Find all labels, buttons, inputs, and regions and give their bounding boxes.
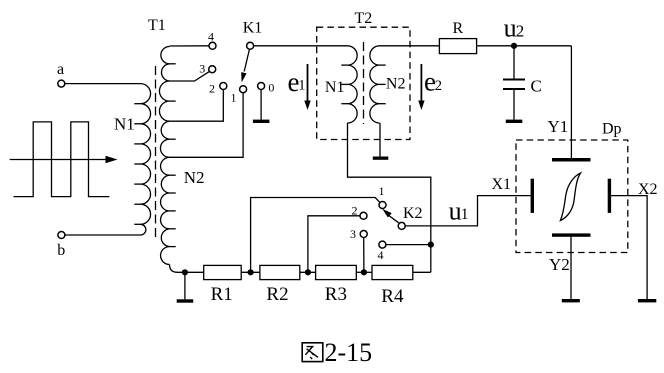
svg-text:1: 1 <box>379 184 385 198</box>
svg-text:R: R <box>452 20 463 37</box>
svg-text:2: 2 <box>352 204 358 218</box>
svg-text:R1: R1 <box>211 284 233 305</box>
svg-text:2: 2 <box>209 82 215 96</box>
svg-text:N2: N2 <box>386 76 406 93</box>
svg-text:2: 2 <box>435 78 442 94</box>
svg-text:T2: T2 <box>355 10 373 27</box>
svg-text:b: b <box>57 242 65 259</box>
svg-text:X1: X1 <box>492 176 512 193</box>
svg-text:Y2: Y2 <box>549 255 570 274</box>
svg-text:2-15: 2-15 <box>325 338 373 367</box>
svg-text:R3: R3 <box>325 284 347 305</box>
svg-text:C: C <box>531 77 542 96</box>
svg-text:1: 1 <box>461 206 469 223</box>
svg-text:4: 4 <box>208 29 214 43</box>
svg-text:4: 4 <box>378 248 384 262</box>
svg-text:3: 3 <box>199 62 205 76</box>
svg-text:a: a <box>57 61 64 78</box>
svg-text:1: 1 <box>231 91 237 105</box>
svg-text:1: 1 <box>298 78 305 94</box>
svg-text:R2: R2 <box>266 284 288 305</box>
svg-text:0: 0 <box>268 81 274 95</box>
svg-text:Y1: Y1 <box>548 117 569 136</box>
svg-text:N1: N1 <box>325 79 345 96</box>
svg-text:T1: T1 <box>148 17 166 34</box>
svg-text:K2: K2 <box>403 205 423 222</box>
svg-text:N1: N1 <box>114 115 135 134</box>
svg-text:u: u <box>504 13 517 42</box>
svg-text:K1: K1 <box>243 20 263 37</box>
svg-text:u: u <box>449 197 462 226</box>
svg-text:2: 2 <box>516 21 525 40</box>
svg-text:R4: R4 <box>381 286 404 307</box>
svg-text:3: 3 <box>350 227 356 241</box>
svg-text:N2: N2 <box>184 168 205 187</box>
svg-text:Dp: Dp <box>602 121 622 138</box>
